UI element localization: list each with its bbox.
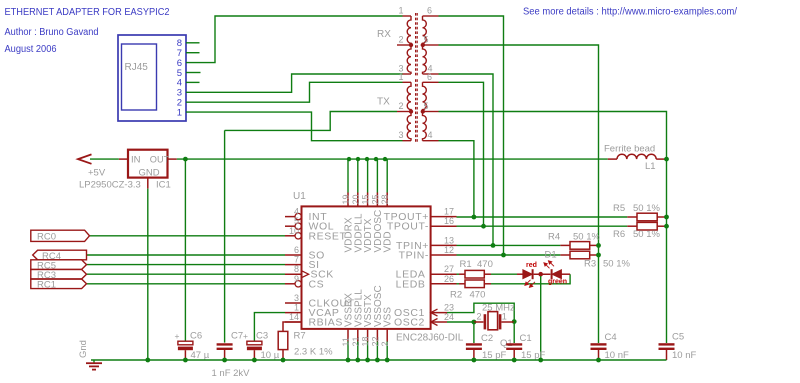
svg-text:CS: CS [309,278,325,290]
RX pin 5 center tap [423,44,439,46]
RX primary winding [407,16,411,74]
L1 winding [617,154,656,159]
svg-text:RX: RX [377,29,391,40]
resistor R4 [560,242,598,250]
junction TPOUT+/TX4 [472,215,477,220]
svg-text:16: 16 [444,216,454,226]
red LED arrows [525,280,535,288]
wire C7 vertical [224,130,226,342]
svg-text:28: 28 [380,194,390,204]
junction R3 right [596,253,601,258]
svg-text:7: 7 [294,255,299,265]
svg-text:3: 3 [294,293,299,303]
resistor R2 [459,280,491,288]
U1 bottom pin 11 [347,329,349,342]
net flag RC5 [31,260,87,270]
wire R2 to green LED [491,274,570,284]
svg-text:2: 2 [380,341,390,346]
U1 pin 6 SO wire from RC4 [87,254,286,256]
svg-text:21: 21 [351,336,361,346]
svg-text:1: 1 [398,6,403,16]
RX pin 2 center tap [397,44,411,46]
svg-text:50 1%: 50 1% [603,259,630,270]
diode D1 green LED [552,269,562,279]
RX pin 1 lead [403,15,412,17]
U1 top pin 19 [347,193,349,207]
svg-text:5: 5 [424,101,429,111]
svg-text:25: 25 [370,194,380,204]
svg-text:C7: C7 [231,331,243,342]
svg-text:R7: R7 [294,331,306,342]
wire 3V3 rail [177,158,608,160]
wire pin13 to R4 [457,244,561,246]
wire RJ45 pin 4 stub [186,81,200,83]
svg-text:50 1%: 50 1% [633,203,660,214]
TX pin 1 lead [403,81,412,83]
svg-text:red: red [526,262,537,269]
wire C6 column [184,159,186,341]
svg-text:1: 1 [502,312,507,322]
svg-text:LP2950CZ-3.3: LP2950CZ-3.3 [79,180,141,191]
junction crystal right [512,319,517,324]
svg-text:RJ45: RJ45 [125,62,149,73]
svg-text:19: 19 [341,194,351,204]
inductor L1 ferrite bead [608,154,667,159]
U1 pin 8 SCK wire from RC3 [87,273,286,275]
svg-text:2.3 K 1%: 2.3 K 1% [294,347,333,358]
svg-text:R1: R1 [460,259,472,270]
wire RX pin 6 to IC pin 12 [439,16,504,255]
red LED anode lead [517,273,523,275]
U1 pin 7 SI wire from RC5 [87,264,286,266]
IC1 GND lead [147,178,149,189]
junction LED common [538,272,543,277]
ground symbol [86,360,102,370]
U1 top pin 20 [357,193,359,207]
diode D1 red LED [523,269,551,279]
resistor R7 [278,322,301,360]
svg-text:2: 2 [476,312,481,322]
RX pin 6 lead [423,15,439,17]
capacitor C2 [473,322,475,343]
svg-text:6: 6 [427,6,432,16]
wire R1 to LED [491,273,517,275]
wire VCAP to C3 [254,313,285,342]
RX core [415,13,417,77]
U1 top pin 25 [376,193,378,207]
svg-text:R2: R2 [450,290,462,301]
svg-text:15 pF: 15 pF [482,350,506,361]
svg-text:Author : Bruno Gavand: Author : Bruno Gavand [5,27,99,38]
TX tap junctions [409,109,413,113]
L1 left lead [608,158,617,160]
RX pin 4 lead [423,73,439,75]
net flag RC4 [33,250,87,260]
U1 CS bubble [295,281,301,287]
U1 pin 9 CS wire from RC1 [87,283,286,285]
wire +5V to IN [90,158,119,160]
resistor R5 [627,213,666,221]
svg-text:R6: R6 [613,229,625,240]
svg-text:IN: IN [131,154,141,165]
svg-text:14: 14 [289,312,299,322]
U1 right pin numbers [444,207,454,322]
connector RJ45 [118,35,186,121]
U1 RESET bubble [295,233,301,239]
svg-text:18: 18 [361,336,371,346]
svg-text:12: 12 [444,245,454,255]
RJ45 pin stubs and wires [186,16,403,343]
op IC U1 ENC28J60 [87,193,457,342]
svg-text:Ferrite bead: Ferrite bead [604,144,655,155]
U1 pin 17 TPOUT+ stub [431,216,457,218]
TX pin numbers [398,72,432,140]
svg-text:4: 4 [428,130,433,140]
wire pin17 to R5 [457,216,628,218]
wire TX pin 4 to IC pin 17 [439,141,474,217]
svg-text:4: 4 [294,207,299,217]
wire RJ45 pin 1 to TX pin 3 [186,112,403,141]
capacitor C7 [217,344,233,360]
U1 OSC2 clock mark [431,319,438,326]
wire VSS drops [347,342,349,361]
svg-text:2: 2 [398,101,403,111]
TX secondary winding [423,82,427,140]
U1 OSC1 clock mark [431,309,438,316]
TX pin 4 lead [423,140,439,142]
junction R6 right [664,224,669,229]
ground rail junctions [145,358,600,363]
U1 top pin names rotated [344,210,394,253]
wire RJ45 pin 2 to TX pin 1 [186,82,403,102]
TX pin 6 lead [423,81,439,83]
svg-text:L1: L1 [645,161,656,172]
svg-text:U1: U1 [293,191,306,202]
svg-text:1: 1 [398,72,403,82]
U1 SCK clock mark [302,271,309,278]
wire TX pin 6 to IC pin 16 [439,82,484,226]
svg-text:3: 3 [398,130,403,140]
green LED anode lead [562,273,571,275]
svg-text:C1: C1 [520,333,532,344]
junction TPIN-/RX6 [501,253,506,258]
net flag RC3 [31,269,87,279]
junction TPIN+/RX4 [491,243,496,248]
svg-text:5: 5 [294,216,299,226]
svg-text:TPOUT-: TPOUT- [387,221,429,233]
wire LED common to ground [540,276,542,360]
svg-text:ENC28J60-DIL: ENC28J60-DIL [396,333,464,344]
RX tap junctions [409,43,413,47]
junction 3V3/C6 [183,157,188,162]
wire RJ45 pin 5 stub [186,72,201,74]
secondary side wires [439,16,667,343]
svg-text:10 nF: 10 nF [672,350,696,361]
regulator IC1 [78,150,177,189]
svg-text:TPIN-: TPIN- [399,250,429,262]
U1 pin 24 OSC2 stub [431,321,447,323]
IC1 OUT lead [168,158,177,160]
svg-text:24: 24 [444,312,454,322]
svg-text:+: + [243,331,248,341]
U1 pin 23 OSC1 stub [431,312,447,314]
svg-text:R5: R5 [613,203,625,214]
RJ45 pin numbers [177,38,182,118]
svg-text:OUT: OUT [150,154,170,164]
IC1 IN lead [119,158,128,160]
transformer TR2 TX [397,79,439,143]
wire pin27 to R1 [457,273,460,275]
svg-text:50 1%: 50 1% [633,229,660,240]
U1 pin 1 VCAP stub [285,312,302,314]
wire TX pin 5 to L1 node [439,112,667,344]
U1 top pin 28 [386,193,388,207]
L1 node junction [664,157,669,162]
U1 pin 26 LEDB stub [431,283,457,285]
svg-text:See more details : http://www.: See more details : http://www.micro-exam… [523,7,737,18]
wire OSC2 to crystal [447,321,474,323]
wire OSC1 around crystal [447,303,514,321]
+5V arrow [78,154,92,163]
U1 bottom pin 2 [386,329,388,342]
U1 pin 4 INT stub [285,216,295,218]
U1 bottom pin 18 [367,329,369,342]
svg-text:6: 6 [294,245,299,255]
U1 pin 13 TPIN+ stub [431,244,457,246]
capacitor C1 [513,322,515,343]
RX pin 3 lead [403,73,412,75]
wire C7 net horizontal [225,112,397,131]
svg-text:RBIAS: RBIAS [309,317,344,329]
wire IC1 GND to ground rail [147,189,149,360]
green LED arrows [544,261,554,269]
svg-text:R4: R4 [548,232,560,243]
U1 bottom pin 22 [376,329,378,342]
junction R5 right [664,215,669,220]
net flag RC0 [31,230,90,241]
U1 pin 16 TPOUT- stub [431,225,457,227]
capacitor C4 [591,344,607,360]
wire pin26 to R2 [457,283,460,285]
svg-text:C5: C5 [672,332,684,343]
svg-text:+: + [175,331,180,341]
svg-text:R3: R3 [584,259,596,270]
svg-text:RC0: RC0 [37,232,56,243]
junction crystal left [472,320,477,325]
U1 pin 14 RBIAS stub [285,321,302,323]
svg-text:Gnd: Gnd [78,340,89,358]
U1 bottom pin numbers rotated [341,336,390,346]
U1 left pin names [309,211,355,328]
svg-text:LEDB: LEDB [396,278,426,290]
svg-text:13: 13 [444,235,454,245]
svg-text:11: 11 [341,337,351,346]
ground rail [91,359,667,361]
svg-text:C2: C2 [481,333,493,344]
wire RX pin 4 to IC pin 13 [439,74,494,245]
junction VDD rail dots [347,157,387,161]
svg-text:25 MHz: 25 MHz [482,303,515,314]
svg-text:GND: GND [139,167,160,178]
svg-text:D1: D1 [545,250,557,261]
wire RX pin 5 to C4 column [439,45,599,343]
capacitor C6 electrolytic [178,341,193,360]
svg-text:C4: C4 [605,332,617,343]
wire RJ45 pin 7 stub [186,52,200,54]
svg-text:VSS: VSS [383,307,394,327]
U1 top pin numbers rotated [341,194,390,204]
svg-text:22: 22 [370,336,380,346]
svg-text:2: 2 [398,35,403,45]
resistor R1 [459,270,491,278]
RX secondary winding [422,16,426,74]
svg-text:470: 470 [470,290,486,301]
svg-text:+5V: +5V [88,168,106,179]
wire RJ45 pin 6 to RX pin 1 [186,16,403,63]
U1 INT bubble [295,213,301,219]
TX pin 2 center tap [397,111,411,113]
svg-text:8: 8 [294,264,299,274]
svg-text:RC1: RC1 [37,280,56,291]
svg-text:26: 26 [444,274,454,284]
svg-text:10: 10 [289,226,299,236]
svg-text:TX: TX [377,96,390,107]
svg-text:IC1: IC1 [156,180,171,191]
capacitor C5 [659,344,675,360]
wire pin12 to R3 [457,254,561,256]
junction TPOUT-/TX6 [481,224,486,229]
svg-text:RESET: RESET [309,230,347,242]
RX pin numbers [398,6,432,74]
svg-text:August 2006: August 2006 [5,44,57,55]
U1 right pin names [384,211,429,328]
TX core [415,79,417,143]
svg-text:OSC2: OSC2 [394,317,425,329]
junction R4 right [596,243,601,248]
svg-text:10 nF: 10 nF [605,350,629,361]
svg-text:470: 470 [477,259,493,270]
svg-text:C6: C6 [190,331,202,342]
resistor R3 [560,251,598,259]
svg-text:17: 17 [444,207,454,217]
U1 top pin 15 [367,193,369,207]
svg-text:VDD: VDD [383,231,394,252]
wire VDD drops [348,159,387,360]
U1 bottom pin names rotated [344,285,394,327]
svg-text:20: 20 [351,194,361,204]
crystal Q1 [474,312,514,330]
TX pin 5 center tap [423,111,439,113]
TX primary winding [407,82,411,140]
svg-text:9: 9 [294,274,299,284]
svg-text:6: 6 [427,72,432,82]
wire RJ45 pin 8 stub [186,42,200,44]
L1 right lead [656,158,666,160]
svg-text:green: green [548,279,567,286]
svg-text:ETHERNET ADAPTER FOR EASYPIC2: ETHERNET ADAPTER FOR EASYPIC2 [5,6,170,18]
U1 pin 12 TPIN- stub [431,254,457,256]
transformer TR1 RX [397,13,439,77]
TX pin 3 lead [403,140,412,142]
svg-text:50 1%: 50 1% [573,232,600,243]
svg-text:5: 5 [424,35,429,45]
resistor R6 [627,222,666,230]
U1 WOL bubble [295,223,301,229]
svg-text:27: 27 [444,264,454,274]
svg-text:15: 15 [361,194,371,204]
wire pin16 to R6 [457,225,628,227]
wire RJ45 pin 3 to RX pin 3 [186,74,403,92]
U1 pin 3 CLKOUT stub [285,302,302,304]
svg-text:C3: C3 [256,331,268,342]
U1 pin 27 LEDA stub [431,273,457,275]
svg-text:1 nF 2kV: 1 nF 2kV [212,368,251,379]
U1 pin 10 RESET stub [90,235,286,237]
U1 left pin numbers [289,207,299,322]
net flag RC1 [31,279,87,289]
U1 bottom pin 21 [357,329,359,342]
U1 pin 5 WOL stub [285,225,295,227]
svg-text:1: 1 [177,107,182,118]
